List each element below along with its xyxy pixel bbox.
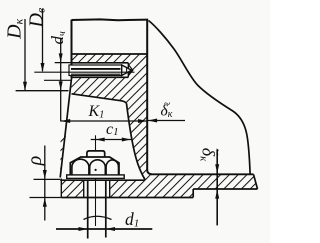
dimension dch line [60,38,62,122]
dimension K1 left arrow [61,119,70,123]
dimension delta-k flange upper arrow [215,164,219,173]
plate hole left edge [83,180,85,197]
stud S1 thread minor line [71,73,121,75]
plate bottom extension line for rho [30,197,62,199]
hatch: left plate piece under washer [61,180,83,197]
plate top extension line for rho [34,178,61,180]
flange step [192,189,194,198]
casing block outline top [72,18,149,21]
dimension delta-k flange lower arrow [215,190,219,199]
stud S1 chamfer edge [126,67,128,73]
hatch: material right of blind hole end [128,63,147,78]
dimension Dk line [24,19,26,90]
svg-text:c1: c1 [106,121,119,138]
dimension rho label [24,156,46,167]
dimension c1 right arrow [122,138,131,142]
svg-text:ρ: ρ [24,156,46,167]
svg-text:K1: K1 [88,103,105,121]
dimension K1 right arrow [138,119,147,123]
plate hole right edge [109,180,111,197]
nut N1 silhouette [70,157,119,175]
dimension delta-k wall arrow line [148,120,185,122]
svg-text:Dк: Dк [4,18,26,39]
dimension K1 line [61,120,147,122]
stud S2 shaft left edge [87,180,89,238]
nut N1 left facet arch [72,159,89,175]
stud hole bottom edge [71,76,128,78]
stud S1 thread major line [71,68,121,70]
stud hole top edge [71,62,128,64]
hole bottom extension line [44,79,72,81]
stud S1 axis centerline [34,71,134,73]
svg-text:Dв: Dв [25,8,47,29]
flange bottom surface [193,188,257,190]
dimension delta-k flange line [216,150,218,226]
stud S1 body [69,65,122,76]
svg-text:d1: d1 [125,209,139,230]
stud S2 centerline [95,135,97,226]
blind hole end [127,63,129,78]
stud S2 shaft right edge [105,180,107,237]
casing block left edge [71,20,73,78]
boundary of unsectioned band [72,53,148,55]
nut N1 centre facet arch [90,160,106,176]
hatch: wall body, vertical wall and flange section [72,77,258,197]
dimension rho line [44,146,46,221]
wall inner ceiling line [72,94,127,104]
dimension delta-k flange label [198,148,219,162]
plate top surface [60,179,145,181]
dimension c1 line [91,139,131,141]
dimension dch extension line [55,62,71,64]
dimension Dv line [42,9,44,71]
nut centre dot [95,169,97,171]
nut N1 right facet arch [106,160,118,175]
tilde over flange delta-k [211,148,225,155]
dimension d1 right arrow [106,227,115,231]
dimension rho upper arrow [43,170,47,179]
stud S2 top end above nut [87,151,105,157]
left wall outer slant [60,78,71,178]
dimension Dv label [25,8,47,29]
casing outer curve [149,21,251,174]
dimension Dk extension line [16,90,69,92]
dimension rho lower arrow [43,198,47,207]
dimension Dk arrow [23,82,27,91]
dimension d1 line [56,228,152,230]
stud S1 chamfered tip [122,65,132,76]
dimension dch arrow [59,53,63,62]
stud S2 break arc [84,216,112,219]
dimension dch label [48,31,68,45]
hole cone tip [128,65,133,76]
flange top surface [151,173,254,175]
hatch: top wall band [72,54,148,63]
dimension Dv arrow [41,63,45,72]
dimension Dk label [4,18,26,39]
svg-text:dч: dч [48,31,68,45]
wall inner surface [127,104,146,181]
svg-text:~: ~ [164,97,171,111]
plate bottom surface [61,197,193,199]
dimension delta-k wall arrow [148,119,157,123]
hatch: left wall lower wedge [60,134,66,178]
wall outer surface [147,21,151,175]
second arrow on extension line [59,81,63,90]
dimension c1 left arrow [96,138,105,142]
dimension d1 left arrow [79,227,88,231]
flange right chamfer [254,174,258,189]
washer W1 [67,175,125,179]
plate left edge [60,179,62,198]
